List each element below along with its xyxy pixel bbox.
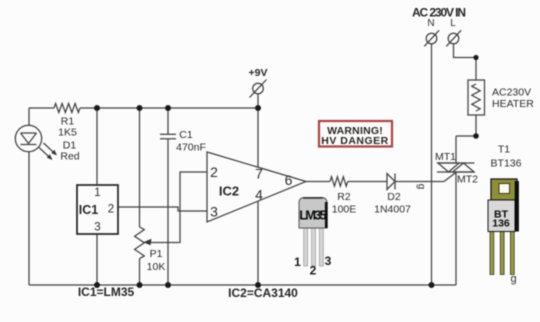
svg-text:+9V: +9V: [249, 67, 268, 79]
svg-text:2: 2: [210, 164, 218, 180]
svg-text:P1: P1: [150, 248, 163, 260]
svg-text:g: g: [416, 184, 427, 190]
svg-text:7: 7: [255, 166, 263, 182]
svg-text:L: L: [450, 18, 456, 29]
svg-text:3: 3: [94, 222, 100, 234]
svg-text:136: 136: [492, 218, 510, 230]
svg-text:470nF: 470nF: [176, 142, 206, 154]
svg-text:6: 6: [285, 172, 293, 188]
svg-text:AC 230V IN: AC 230V IN: [412, 6, 466, 20]
svg-text:1: 1: [94, 187, 100, 199]
svg-text:2: 2: [310, 264, 317, 278]
svg-text:3: 3: [210, 204, 218, 220]
svg-text:HEATER: HEATER: [492, 98, 534, 110]
svg-text:IC1=LM35: IC1=LM35: [78, 285, 135, 299]
svg-text:HV DANGER: HV DANGER: [321, 135, 389, 147]
svg-text:1N4007: 1N4007: [374, 204, 411, 216]
svg-text:AC230V: AC230V: [492, 87, 531, 99]
svg-text:D2: D2: [387, 191, 401, 203]
svg-text:T1: T1: [498, 144, 510, 156]
svg-text:IC2: IC2: [219, 184, 239, 199]
svg-text:1K5: 1K5: [58, 127, 77, 139]
svg-text:MT1: MT1: [435, 151, 456, 163]
svg-text:10K: 10K: [147, 261, 166, 273]
svg-text:Red: Red: [60, 151, 79, 163]
svg-text:BT136: BT136: [491, 158, 522, 170]
svg-text:1: 1: [294, 255, 301, 269]
svg-text:LM35: LM35: [299, 208, 327, 223]
svg-text:100E: 100E: [332, 204, 357, 216]
svg-text:IC2=CA3140: IC2=CA3140: [228, 286, 298, 300]
svg-text:C1: C1: [179, 129, 193, 141]
svg-text:IC1: IC1: [79, 203, 99, 217]
svg-text:MT2: MT2: [457, 174, 478, 186]
svg-text:3: 3: [325, 254, 332, 268]
svg-text:N: N: [427, 18, 434, 29]
svg-text:g: g: [510, 273, 516, 285]
svg-text:2: 2: [108, 204, 114, 216]
svg-text:R2: R2: [337, 191, 351, 203]
svg-text:4: 4: [255, 187, 263, 203]
